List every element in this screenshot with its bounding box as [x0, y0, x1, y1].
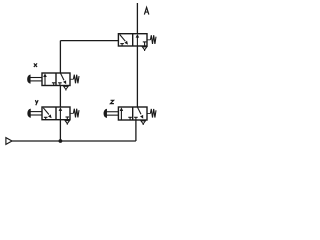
- wire: pilot valve port 1 down to valve z port 2: [136, 46, 138, 107]
- valve y: 3/2-way pushbutton valve (normally open, spring return): [28, 107, 79, 125]
- node y (valve y label): [35, 100, 38, 105]
- wire: supply riser to valve z port 1: [135, 120, 137, 141]
- wire: pilot signal line vertical drop to valve x port 2: [59, 41, 61, 73]
- wire: pilot signal line from valve x output to pilot valve (horizontal run): [60, 40, 118, 42]
- wire: supply bus (horizontal): [12, 140, 136, 142]
- wire: output line A rising from pilot valve port 2: [136, 3, 138, 34]
- valve z: 3/2-way pushbutton valve (normally closed, spring return): [104, 107, 156, 125]
- node z (valve z label): [110, 100, 113, 103]
- compressed air supply source: [6, 138, 12, 145]
- valve x: 3/2-way pushbutton valve (normally closed, spring return): [27, 73, 79, 91]
- node A (output net label): [144, 7, 149, 14]
- node x (valve x label): [34, 63, 37, 67]
- wire: valve x port 1 down to valve y port 2: [59, 86, 61, 108]
- valve U1: 3/2-way pilot-operated valve producing output A (normally open, spring return): [118, 34, 156, 51]
- junction: supply bus to valve y branch: [59, 139, 63, 143]
- wire: valve y port 1 down to supply bus: [59, 120, 61, 141]
